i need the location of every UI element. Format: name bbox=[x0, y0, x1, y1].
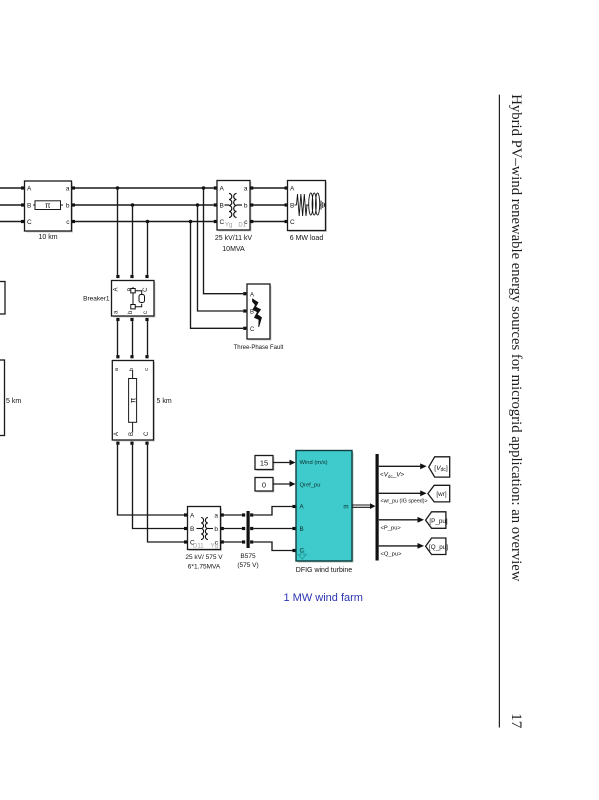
wire vertical bus-to-breaker phase B bbox=[132, 205, 134, 275]
svg-text:Three-Phase Fault: Three-Phase Fault bbox=[234, 345, 284, 351]
svg-text:b: b bbox=[66, 203, 70, 210]
header rule (vertical) bbox=[498, 95, 500, 728]
svg-text:25 kV/ 575 V: 25 kV/ 575 V bbox=[185, 554, 223, 561]
breaker contact symbol bbox=[131, 287, 145, 309]
junction dots fault taps bbox=[189, 186, 206, 223]
svg-text:B: B bbox=[250, 310, 254, 316]
trigger arrow glyph bbox=[298, 551, 306, 559]
svg-text:A: A bbox=[27, 186, 32, 193]
port squares fault left bbox=[243, 292, 246, 330]
svg-text:m: m bbox=[343, 504, 348, 511]
constant block 0 bbox=[255, 478, 275, 493]
svg-text:D1: D1 bbox=[238, 223, 246, 229]
svg-text:π: π bbox=[128, 397, 137, 403]
port squares 10km right bbox=[72, 186, 75, 223]
wire bus row A (10km to transformer1) bbox=[75, 187, 214, 189]
svg-text:A: A bbox=[250, 293, 254, 299]
svg-text:C: C bbox=[220, 219, 225, 226]
svg-text:Yg: Yg bbox=[225, 223, 232, 229]
wire vertical bus-to-breaker phase A bbox=[117, 188, 119, 275]
partial block top-left (cut off) bbox=[0, 282, 5, 315]
port squares breaker bottom bbox=[116, 318, 148, 321]
svg-text:C: C bbox=[143, 287, 149, 292]
svg-text:B: B bbox=[220, 203, 224, 210]
svg-text:a: a bbox=[214, 513, 218, 520]
svg-text:<P_pu>: <P_pu> bbox=[381, 526, 402, 532]
svg-text:C: C bbox=[290, 219, 295, 226]
wire B575 to DFIG C bbox=[253, 542, 292, 551]
wire T2 to B575 row c bbox=[224, 541, 243, 543]
bus selector bar bbox=[376, 454, 379, 561]
port squares B575 left bbox=[242, 513, 245, 543]
junction dots breaker taps bbox=[116, 186, 150, 223]
svg-text:6*1.75MVA: 6*1.75MVA bbox=[188, 564, 221, 571]
wire fault tap phase B bbox=[198, 205, 244, 311]
constant block 15 bbox=[255, 456, 275, 472]
svg-text:10 km: 10 km bbox=[38, 234, 57, 241]
bus bar B575 bbox=[247, 511, 250, 548]
wire T2 to B575 row a bbox=[224, 514, 243, 516]
port squares T2 right bbox=[221, 513, 224, 543]
svg-text:25 kV/11 kV: 25 kV/11 kV bbox=[215, 235, 253, 242]
port squares transformer1 right bbox=[250, 186, 253, 223]
goto tag [Q_pu] bbox=[426, 538, 449, 555]
winding symbol bbox=[225, 194, 243, 218]
wire 15 to Wind input bbox=[273, 460, 296, 466]
svg-text:b: b bbox=[214, 526, 218, 533]
block 10 km pi-section line bbox=[25, 181, 74, 233]
port squares 5km bottom bbox=[116, 442, 148, 445]
RLC load symbol bbox=[295, 193, 325, 216]
svg-text:[P_pu]: [P_pu] bbox=[429, 518, 447, 525]
svg-text:c: c bbox=[143, 311, 149, 314]
svg-text:(575 V): (575 V) bbox=[237, 562, 258, 569]
wire T1 to load row b bbox=[253, 204, 284, 206]
svg-text:b: b bbox=[244, 203, 248, 210]
svg-text:<wr_pu (IG speed)>: <wr_pu (IG speed)> bbox=[381, 499, 428, 505]
wire 5km to T2 phase C bbox=[148, 445, 185, 542]
wire B575 to DFIG B bbox=[253, 528, 292, 530]
svg-text:A: A bbox=[190, 513, 195, 520]
svg-text:a: a bbox=[66, 186, 70, 193]
lightning bolt bbox=[253, 299, 262, 327]
goto tag [wr] bbox=[428, 485, 450, 502]
wire vertical bus-to-breaker phase C bbox=[147, 222, 149, 275]
wire 5km to T2 phase A bbox=[118, 445, 185, 515]
svg-text:[Vdc]: [Vdc] bbox=[434, 465, 448, 473]
block Three-Phase Fault bbox=[247, 284, 272, 341]
svg-text:A: A bbox=[114, 432, 120, 436]
svg-text:C: C bbox=[144, 431, 150, 436]
svg-text:Yg: Yg bbox=[211, 544, 218, 550]
svg-text:17: 17 bbox=[508, 713, 525, 729]
svg-text:c: c bbox=[144, 368, 150, 371]
svg-text:<Q_pu>: <Q_pu> bbox=[381, 552, 403, 558]
svg-text:Breaker1: Breaker1 bbox=[83, 296, 110, 303]
block Breaker1 bbox=[112, 281, 156, 318]
svg-text:D11: D11 bbox=[193, 544, 204, 550]
wire bus row B bbox=[75, 204, 214, 206]
svg-text:B: B bbox=[190, 526, 194, 533]
svg-text:[Q_pu]: [Q_pu] bbox=[429, 544, 448, 551]
wire m output (bus) bbox=[352, 503, 378, 509]
svg-text:π: π bbox=[45, 201, 51, 210]
wire selector out Vdc bbox=[379, 463, 427, 469]
svg-text:C: C bbox=[27, 219, 32, 226]
wire selector out P_pu bbox=[379, 517, 424, 523]
wire T1 to load row c bbox=[253, 221, 284, 223]
svg-text:Qref_pu: Qref_pu bbox=[300, 483, 321, 489]
port squares 10km left bbox=[21, 186, 24, 223]
wire 0 to Qref input bbox=[273, 481, 296, 487]
svg-text:[wr]: [wr] bbox=[436, 491, 446, 498]
block 6 MW load bbox=[288, 181, 328, 233]
wire selector out Q_pu bbox=[379, 543, 424, 549]
svg-text:B575: B575 bbox=[240, 553, 256, 560]
partial block bottom-left 5km line (cut off) bbox=[0, 360, 5, 436]
goto tag [Vdc] bbox=[429, 457, 450, 477]
port squares DFIG left bbox=[292, 505, 295, 552]
svg-text:B: B bbox=[129, 432, 135, 436]
wire breaker-to-5km phase C bbox=[147, 321, 149, 355]
svg-text:A: A bbox=[220, 186, 225, 193]
svg-text:A: A bbox=[114, 288, 120, 292]
svg-text:1 MW wind farm: 1 MW wind farm bbox=[284, 592, 363, 604]
svg-text:B: B bbox=[27, 203, 31, 210]
svg-text:b: b bbox=[129, 368, 135, 371]
wire bus row A left segment bbox=[0, 188, 21, 222]
svg-text:C: C bbox=[250, 327, 255, 333]
wire breaker-to-5km phase B bbox=[132, 321, 134, 355]
wire T2 to B575 row b bbox=[224, 528, 243, 530]
svg-text:5 km: 5 km bbox=[157, 398, 172, 405]
block 5 km pi-section line (vertical) bbox=[112, 361, 155, 442]
wire fault tap phase C bbox=[191, 222, 244, 329]
wire T1 to load row a bbox=[253, 187, 284, 189]
wire 5km to T2 phase B bbox=[133, 445, 185, 529]
block DFIG wind turbine bbox=[296, 451, 354, 563]
svg-text:Hybrid PV–wind renewable energ: Hybrid PV–wind renewable energy sources … bbox=[508, 94, 524, 582]
svg-text:5 km: 5 km bbox=[6, 398, 21, 405]
svg-text:10MVA: 10MVA bbox=[222, 246, 245, 253]
svg-text:B: B bbox=[290, 203, 294, 210]
svg-text:<Vdc_V>: <Vdc_V> bbox=[380, 472, 404, 480]
port squares T2 left bbox=[184, 513, 187, 543]
transformer T2 25kV/575V block bbox=[188, 507, 223, 552]
port squares breaker top bbox=[116, 275, 148, 278]
transformer T1 25kV/11kV block bbox=[217, 181, 252, 232]
goto tag [P_pu] bbox=[426, 512, 448, 529]
wire B575 to DFIG A bbox=[253, 507, 292, 516]
wire bus row C bbox=[75, 221, 214, 223]
wire selector out wr bbox=[379, 490, 427, 496]
wire fault tap phase A bbox=[204, 188, 244, 294]
svg-text:15: 15 bbox=[260, 459, 268, 468]
svg-text:6 MW load: 6 MW load bbox=[290, 235, 324, 242]
svg-text:Wind (m/s): Wind (m/s) bbox=[300, 460, 328, 466]
winding symbol bbox=[197, 518, 214, 540]
svg-text:DFIG wind turbine: DFIG wind turbine bbox=[296, 567, 353, 574]
port squares 5km top bbox=[116, 355, 148, 358]
svg-text:0: 0 bbox=[262, 481, 266, 490]
port squares load left bbox=[285, 186, 288, 223]
port squares transformer1 left bbox=[214, 186, 217, 223]
port squares B575 right bbox=[250, 513, 253, 543]
svg-text:a: a bbox=[244, 186, 248, 193]
wire breaker-to-5km phase A bbox=[117, 321, 119, 355]
svg-text:A: A bbox=[290, 186, 295, 193]
svg-text:B: B bbox=[300, 526, 304, 533]
